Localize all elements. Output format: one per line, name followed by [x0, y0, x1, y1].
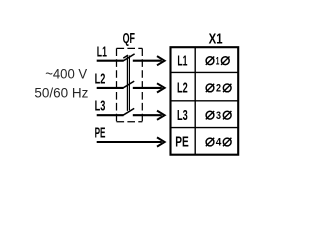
svg-text:L1: L1: [97, 44, 107, 60]
terminal 1 symbols (circle-slash 1 circle-slash): [206, 57, 230, 65]
terminal block row divider 1: [171, 71, 239, 73]
terminal block row divider 2: [171, 100, 239, 102]
svg-text:L3: L3: [95, 99, 106, 115]
terminal 3 symbols: [206, 111, 232, 119]
svg-text:2: 2: [216, 83, 221, 95]
svg-text:1: 1: [216, 55, 220, 67]
wire L2 right segment with arrow: [133, 83, 165, 92]
svg-text:~400 V: ~400 V: [45, 67, 87, 82]
svg-text:QF: QF: [123, 31, 136, 47]
terminal block X1 outline: [171, 47, 239, 155]
breaker QF pole 3 contact: [123, 108, 134, 115]
wire L1 left segment: [97, 60, 124, 62]
wire L3 left segment: [97, 114, 124, 116]
wire L1 right segment with arrow: [133, 56, 165, 65]
breaker QF dashed outline: [117, 48, 143, 121]
wire PE with arrow into X1: [97, 137, 165, 146]
terminal block row divider 3: [171, 127, 239, 129]
svg-text:L2: L2: [177, 81, 188, 97]
wire L2 left segment: [97, 87, 124, 89]
terminal 2 symbols: [206, 84, 232, 92]
svg-text:L1: L1: [177, 53, 187, 69]
breaker QF pole 2 contact: [123, 81, 134, 88]
svg-text:3: 3: [216, 110, 221, 122]
terminal 4 symbols: [206, 138, 232, 146]
svg-text:PE: PE: [95, 126, 106, 142]
wire L3 right segment with arrow: [133, 111, 165, 120]
label ~400 V 50/60 Hz supply rating: [34, 67, 88, 101]
svg-text:PE: PE: [175, 135, 189, 151]
svg-text:X1: X1: [209, 32, 223, 48]
svg-text:4: 4: [216, 137, 222, 149]
terminal block column divider: [194, 47, 196, 155]
svg-text:L3: L3: [177, 108, 188, 124]
breaker mechanical linkage (double line): [127, 56, 129, 111]
svg-text:50/60 Hz: 50/60 Hz: [34, 86, 88, 101]
breaker QF pole 1 contact: [123, 54, 134, 61]
svg-text:L2: L2: [95, 72, 106, 88]
